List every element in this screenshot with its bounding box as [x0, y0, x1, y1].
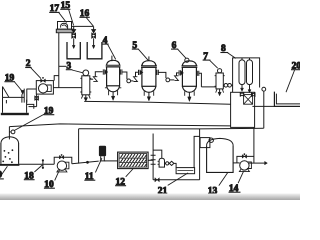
- feed tank rim: [3, 96, 25, 98]
- column 3 ball: [83, 70, 89, 76]
- vent pipe: [263, 91, 265, 128]
- arrow right branch: [92, 30, 96, 33]
- label 4: [102, 36, 109, 46]
- check valve on pump 2: [41, 79, 46, 83]
- pump 14 drop from box: [253, 128, 255, 163]
- column 7 legs: [216, 89, 224, 93]
- heater 21: [176, 168, 195, 174]
- feed tank diagonal: [3, 87, 10, 98]
- tank 13 outlet: [233, 162, 240, 164]
- vessel 5 dome: [142, 61, 156, 66]
- recycle line B: [79, 127, 264, 130]
- seal pot circle v4-v5: [127, 79, 131, 83]
- bottom line drum to unit 21: [148, 159, 153, 161]
- filter 11 stem: [101, 156, 105, 161]
- vessel 4 body: [107, 67, 120, 86]
- settling tank 1 dome: [1, 137, 19, 144]
- pipe v6 to column 7: [199, 73, 216, 87]
- vent circle: [262, 87, 266, 91]
- vessel 4 legs: [109, 91, 118, 96]
- column 7 body: [216, 73, 223, 89]
- tank1 top circle: [11, 130, 15, 134]
- vessel 5 vent stub: [148, 56, 150, 61]
- vessel 5 bottom head: [142, 86, 156, 92]
- bottom line filter to drum 12: [104, 160, 117, 162]
- label 19 upper: [4, 73, 15, 83]
- overflow hook: [27, 104, 34, 108]
- vessel 4 vent stub: [111, 56, 113, 62]
- dosing pot: [159, 158, 164, 167]
- column A bottom arrow: [241, 85, 243, 89]
- pump 14 circle: [240, 161, 249, 170]
- bottom drain line 21: [153, 179, 200, 181]
- pump 2 discharge riser: [54, 76, 59, 81]
- label 2: [25, 59, 31, 69]
- vessel 4 bottom arrow: [112, 92, 114, 96]
- seal pot circle v5-v6: [166, 78, 170, 82]
- label 15: [60, 1, 70, 11]
- leader 15: [69, 10, 74, 26]
- drum 12 row dividers: [119, 158, 147, 163]
- tank 1 contents dots: [2, 149, 13, 163]
- leader 12: [126, 169, 133, 177]
- column 3 legs: [81, 95, 90, 99]
- leader 17: [59, 12, 67, 22]
- leader 19 upper: [15, 82, 22, 90]
- dosing point 18: [42, 161, 44, 167]
- downpipe from mixer: [58, 33, 60, 88]
- valve right branch: [92, 33, 96, 38]
- vessel 4 flange: [106, 65, 121, 67]
- vessel 6 top circle: [185, 58, 189, 62]
- line B drop to tank 13: [199, 129, 201, 180]
- leader 3: [72, 70, 83, 73]
- return line A left drop: [8, 127, 10, 140]
- pump 2 suction: [27, 88, 36, 90]
- pipe pump2 to column 3: [53, 87, 81, 89]
- pump 14 bypass loop: [237, 156, 254, 163]
- collection box: [231, 92, 255, 127]
- column 3 bottom arrow: [85, 95, 87, 98]
- pump 14 check valve: [242, 155, 246, 159]
- vessel 6 bottom head: [182, 86, 196, 92]
- valve left branch: [72, 33, 76, 38]
- pump 10 check valve: [59, 155, 63, 159]
- mixer tray: [56, 29, 73, 33]
- leader 2: [31, 68, 41, 79]
- label 10: [44, 180, 55, 190]
- leader 8: [228, 53, 236, 59]
- rotameter circle: [165, 162, 166, 164]
- tank 13 vent circle: [209, 138, 213, 142]
- tank 13 chute: [200, 138, 210, 148]
- vessel 6 body: [182, 67, 196, 86]
- feed link to dosing pot: [153, 150, 162, 158]
- label 5: [132, 41, 139, 51]
- riser to vessel 5: [136, 72, 138, 76]
- column 3 flange ticks: [80, 78, 91, 92]
- label 8: [220, 44, 228, 54]
- fan square in box: [244, 95, 253, 105]
- vessel 6 bottom arrow: [188, 92, 190, 97]
- dip tube left: [73, 38, 75, 46]
- column 7 bottom arrow: [219, 89, 221, 92]
- leader 6: [178, 49, 186, 58]
- settling tank 1 base: [0, 164, 19, 166]
- pipe to heater 21: [174, 163, 176, 167]
- pump 10 volute: [64, 162, 69, 169]
- label 7: [203, 52, 211, 62]
- trough 20: [274, 92, 300, 107]
- zigzag riser col3-v4: [93, 77, 97, 82]
- return line A: [9, 124, 231, 127]
- diamond fitting: [168, 162, 171, 164]
- label 9 leader: [2, 166, 8, 174]
- pipe v5 to pot: [158, 72, 166, 78]
- vessel 4 lower side ticks: [105, 87, 121, 89]
- label 20: [291, 61, 301, 71]
- dosing pot ticks: [158, 161, 160, 164]
- label 19 lower: [44, 106, 55, 116]
- column A valve: [240, 92, 244, 97]
- leader 4: [108, 44, 116, 59]
- drain elbow: [29, 106, 37, 108]
- pump 14 outlet: [249, 162, 265, 164]
- label 21: [157, 186, 170, 196]
- label 11: [84, 172, 95, 182]
- pipe from mixer to branches: [72, 25, 94, 27]
- mixer pump impeller: [61, 23, 68, 29]
- pump 2 box: [36, 81, 53, 95]
- pump circles pair: [224, 84, 228, 88]
- leader 20: [286, 70, 295, 92]
- column B bottom arrow: [249, 85, 251, 90]
- junction dot: [86, 161, 89, 164]
- label 14: [229, 184, 241, 194]
- vessel 4 dome: [107, 60, 120, 65]
- bottom line pump10 to filter 11: [72, 161, 99, 164]
- feed tank walls: [3, 97, 27, 112]
- open tank right: [87, 42, 102, 59]
- vessel 4 outlet flange: [120, 69, 122, 74]
- pipe to column 3 top: [59, 65, 66, 67]
- tank 13 body: [207, 145, 234, 172]
- vessel 5 legs: [144, 91, 154, 96]
- leader 13: [219, 173, 228, 186]
- leader 14: [238, 171, 244, 183]
- collector line LL1: [84, 101, 230, 104]
- zigzag riser v4-v5: [134, 77, 138, 82]
- label 13: [207, 187, 219, 197]
- leader 11: [95, 158, 102, 172]
- pump 14 volute: [247, 162, 252, 169]
- label 16: [79, 9, 89, 19]
- pipe v4 to pot: [122, 72, 127, 79]
- column 7 side ticks: [215, 76, 225, 87]
- dip tube right: [93, 38, 95, 46]
- main bottom line tank1 to pump10: [19, 163, 55, 165]
- leader 16: [86, 18, 93, 27]
- vessel 5 body: [142, 67, 156, 86]
- valve col B stub: [251, 92, 255, 96]
- adsorber column A: [239, 60, 245, 85]
- riser to vessel 6: [177, 73, 179, 76]
- label 9: [0, 171, 4, 181]
- pump 2 circle: [39, 84, 48, 93]
- pipe pot to zigzag: [131, 80, 134, 82]
- pipe box to trough: [252, 105, 274, 107]
- pump 14 feet: [239, 169, 249, 171]
- arrow left branch: [72, 30, 76, 33]
- column 3 body: [82, 76, 90, 95]
- pump 10 feet: [57, 170, 67, 172]
- feed tank wall top: [2, 87, 4, 98]
- mixer tank 17 box: [58, 22, 72, 30]
- distributor pipe: [152, 134, 154, 180]
- riser to vessel 4: [95, 72, 102, 77]
- vessel 6 inlet flange: [179, 70, 181, 75]
- standpipe double: [24, 89, 27, 103]
- vessel 5 bottom arrow: [148, 92, 150, 96]
- tank 13 dome: [207, 138, 234, 145]
- heater 21 riser: [194, 136, 200, 167]
- branch drop right: [93, 26, 95, 29]
- drain valve 21: [155, 178, 159, 182]
- adsorber column B: [247, 60, 253, 85]
- scan shadow band: [0, 194, 300, 201]
- pump 10 circle: [57, 161, 66, 170]
- vessel 5 outlet flange: [157, 70, 159, 75]
- vessel 6 flange: [182, 66, 198, 68]
- leader 7: [210, 60, 218, 68]
- label 18: [24, 171, 35, 181]
- vessel 5 inlet flange: [139, 70, 141, 75]
- drum 12 shell: [118, 152, 149, 169]
- pipe col7 to frame: [223, 84, 232, 86]
- leader 19 lower: [15, 114, 45, 130]
- vessel 6 dome: [182, 61, 196, 66]
- zigzag riser v5-v6: [175, 76, 179, 81]
- leader 21: [168, 173, 188, 186]
- label 3: [66, 61, 73, 71]
- adsorber frame: [233, 58, 260, 92]
- drum 12 hatch fill: [121, 154, 147, 167]
- vessel 5 flange: [141, 66, 157, 68]
- column B top stub: [249, 58, 251, 60]
- inner pipe: [6, 94, 22, 103]
- pump 2 drain valve: [36, 94, 38, 107]
- column 3 outlet flange: [90, 78, 93, 80]
- label 12: [115, 177, 126, 187]
- pump 10 bypass loop: [54, 157, 72, 164]
- vessel 4 inlet flange: [103, 69, 105, 74]
- label 6: [171, 41, 178, 51]
- distributor ticks: [151, 155, 156, 164]
- leader 10: [55, 169, 60, 180]
- pump 2 volute: [46, 85, 51, 92]
- leader 5: [139, 49, 149, 60]
- filter 11 cartridge: [99, 146, 106, 157]
- vessel 4 bottom head: [107, 86, 120, 92]
- settling tank 1 walls: [1, 143, 19, 164]
- label 17: [49, 4, 59, 14]
- pipe pot to zigzag: [170, 79, 175, 81]
- branch drop left: [73, 26, 75, 29]
- vessel 6 legs: [185, 91, 195, 96]
- feed tank base: [1, 113, 29, 115]
- column A top stub: [241, 58, 243, 60]
- line B left drop: [78, 129, 80, 164]
- column 7 ball: [218, 69, 222, 73]
- open tank left: [67, 42, 80, 59]
- leader 18: [34, 165, 42, 172]
- vessel 6 outlet flange: [197, 71, 199, 76]
